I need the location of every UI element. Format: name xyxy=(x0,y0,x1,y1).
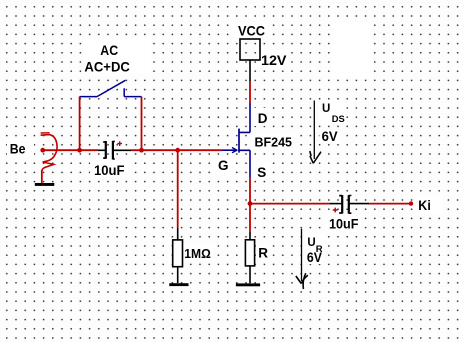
svg-text:U: U xyxy=(307,237,315,249)
wire: output net junction to cap (red) xyxy=(250,203,330,205)
plus sign C2 xyxy=(333,208,338,213)
wire: switch right leg (red) xyxy=(141,97,143,151)
svg-text:10uF: 10uF xyxy=(329,217,359,232)
wire: source down to junction (red) xyxy=(249,177,251,204)
svg-text:12V: 12V xyxy=(261,53,287,68)
junction (switch right) xyxy=(139,148,144,153)
junction (1M branch) xyxy=(175,148,180,153)
wire: switch left leg (red) xyxy=(79,97,81,151)
ground (mic) xyxy=(35,183,55,186)
svg-text:AC: AC xyxy=(100,42,118,58)
svg-text:AC+DC: AC+DC xyxy=(84,60,130,75)
wire: 1M resistor branch (red) xyxy=(177,150,179,227)
svg-text:VCC: VCC xyxy=(238,24,265,39)
wire: cap to Ki (red) xyxy=(369,203,411,205)
ground (R) xyxy=(236,283,260,286)
plus sign C1 xyxy=(117,141,122,146)
svg-text:Be: Be xyxy=(10,141,26,156)
junction (switch left) xyxy=(77,148,82,153)
svg-text:10uF: 10uF xyxy=(94,163,125,178)
VCC box xyxy=(240,39,260,60)
wire: VCC to drain (black then red) xyxy=(249,60,251,81)
resistor R xyxy=(249,232,251,283)
microphone Be (red scribble) xyxy=(41,135,57,181)
capacitor C2 10uF (output) xyxy=(330,203,342,205)
svg-text:6V: 6V xyxy=(322,129,338,144)
ground (1M) xyxy=(169,283,188,286)
svg-text:DS: DS xyxy=(332,114,345,125)
transistor Q1 BF245 (blue JFET) xyxy=(238,129,240,153)
switch S1 (blue) xyxy=(80,80,142,96)
wire: junction down to R (red) xyxy=(249,204,251,233)
wire: cap to gate (red) xyxy=(131,149,222,151)
capacitor C1 10uF (input) xyxy=(98,149,105,151)
svg-text:1MΩ: 1MΩ xyxy=(184,246,211,261)
node Ki dot xyxy=(409,201,413,205)
svg-text:S: S xyxy=(257,165,266,180)
svg-text:6V: 6V xyxy=(307,250,322,265)
wire: mic tail to ground (red) xyxy=(41,170,43,183)
arrow U_R xyxy=(301,229,303,281)
arrow U_DS xyxy=(313,101,315,160)
svg-text:Ki: Ki xyxy=(418,198,431,213)
label background patches xyxy=(7,22,443,264)
wire: main horizontal input net (red) xyxy=(43,149,98,151)
svg-text:D: D xyxy=(258,111,268,126)
svg-text:BF245: BF245 xyxy=(255,136,293,150)
svg-text:G: G xyxy=(218,158,229,173)
resistor 1M xyxy=(177,227,179,283)
junction (source/output) xyxy=(248,201,253,206)
svg-text:R: R xyxy=(258,246,268,261)
node Be dot xyxy=(40,148,45,153)
svg-text:U: U xyxy=(322,103,330,115)
